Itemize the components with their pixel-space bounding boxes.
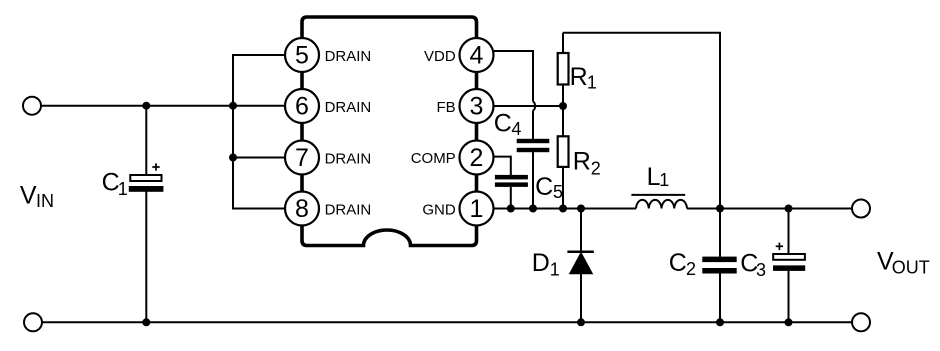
wire: VDD pin4 to C4 top (crossover hop at FB wire) (492, 51, 533, 102)
wire: C5 bottom to switch-node rail (510, 187, 512, 209)
wire: left drain bus vertical with stubs to pins 5,7,8 (233, 55, 285, 209)
pin 8 (DRAIN) (285, 192, 371, 226)
capacitor C1 polarity plus sign (152, 163, 159, 170)
junction: rail / C5 (507, 205, 515, 213)
wire: bottom return rail (42, 321, 852, 323)
value label C2 (669, 249, 696, 279)
inductor L1 coil (636, 200, 687, 209)
svg-text:C: C (494, 109, 512, 137)
capacitor C4 bottom plate (517, 148, 550, 152)
pin 3 (FB) (437, 89, 494, 123)
junction: input rail / drain bus (229, 102, 237, 110)
value label D1 (532, 249, 560, 279)
svg-text:3: 3 (470, 93, 484, 121)
junction: output node / C2 / feedback (716, 205, 724, 213)
capacitor C5 top plate (495, 175, 528, 180)
terminal: VIN positive (23, 97, 41, 115)
svg-text:FB: FB (437, 99, 456, 116)
junction: output node / C3 (785, 205, 793, 213)
junction: FB node R1/R2 (559, 102, 567, 110)
svg-text:7: 7 (295, 144, 309, 172)
diode D1 cathode bar (567, 251, 593, 254)
svg-text:DRAIN: DRAIN (325, 202, 372, 219)
svg-text:6: 6 (295, 93, 309, 121)
svg-text:2: 2 (591, 159, 601, 179)
pin 1 (GND) (422, 192, 493, 226)
wire: C2 bottom lead (719, 273, 721, 322)
junction: input rail / C1 (142, 102, 150, 110)
wire: FB pin3 to divider node (494, 105, 564, 107)
svg-text:1: 1 (659, 170, 669, 190)
junction: rail / C4 (529, 205, 537, 213)
wire: switch-node rail from L1 to VOUT+ terminal (687, 208, 852, 210)
svg-text:4: 4 (511, 119, 521, 139)
wire: C3 bottom lead (788, 271, 790, 323)
wire: stub to pin 7 (233, 157, 285, 159)
svg-text:3: 3 (756, 260, 766, 280)
resistor R2 body (558, 136, 569, 167)
net label VOUT (877, 248, 930, 278)
svg-text:1: 1 (550, 259, 560, 279)
svg-text:1: 1 (118, 179, 128, 199)
capacitor C1 positive plate (hollow) (130, 175, 161, 181)
pin 7 (DRAIN) (285, 141, 371, 175)
svg-text:4: 4 (470, 42, 484, 70)
value label C5 (535, 173, 563, 202)
terminal: VIN negative (24, 313, 42, 331)
capacitor C2 bottom plate (702, 268, 736, 274)
svg-text:2: 2 (686, 259, 696, 279)
value label C3 (740, 249, 766, 280)
value label R1 (570, 63, 597, 93)
value label C4 (494, 109, 522, 139)
capacitor C3 positive plate (hollow) (773, 254, 805, 260)
diode D1 anode triangle (570, 253, 593, 274)
junction: bottom rail / C3 (785, 318, 793, 326)
svg-text:C: C (535, 173, 553, 201)
capacitor C3 negative plate (solid) (773, 265, 805, 271)
wire: C3 top lead (788, 209, 790, 255)
junction: rail / R2 (559, 205, 567, 213)
svg-text:8: 8 (295, 195, 309, 223)
wire: switch-node rail from GND pin1 to L1 (494, 208, 637, 210)
value label R2 (573, 148, 601, 179)
svg-text:1: 1 (587, 72, 597, 92)
svg-text:DRAIN: DRAIN (325, 48, 372, 65)
value label C1 (102, 168, 128, 199)
svg-text:5: 5 (553, 182, 563, 202)
wire: D1 top lead (580, 209, 582, 253)
svg-text:DRAIN: DRAIN (325, 151, 372, 168)
wire: feedback from R1 top to output node (563, 33, 720, 209)
wire: C2 top lead (719, 209, 721, 258)
junction: bottom rail / C2 (716, 318, 724, 326)
svg-text:R: R (573, 148, 591, 176)
resistor R1 body (558, 53, 569, 85)
svg-text:R: R (570, 63, 588, 91)
svg-text:2: 2 (470, 144, 484, 172)
svg-text:OUT: OUT (892, 258, 930, 278)
wire: R2 bottom lead to switch-node rail (562, 167, 564, 209)
svg-text:COMP: COMP (411, 150, 456, 167)
wire: R1 bottom lead to FB node (562, 85, 564, 107)
value label L1 (647, 163, 670, 191)
svg-text:VDD: VDD (424, 48, 456, 65)
inductor L1 core bar (631, 194, 685, 196)
svg-text:1: 1 (470, 195, 484, 223)
svg-text:IN: IN (36, 191, 54, 211)
wire: C1 branch vertical (bottom) (145, 191, 147, 322)
wire: COMP pin2 to C5 top (493, 157, 511, 175)
wire: C1 branch vertical (top) (145, 106, 147, 175)
svg-text:GND: GND (422, 202, 456, 219)
pin 2 (COMP) (411, 141, 494, 175)
svg-text:DRAIN: DRAIN (325, 99, 372, 116)
svg-text:V: V (20, 182, 37, 210)
svg-text:D: D (532, 249, 550, 277)
junction: bottom rail / D1 (577, 318, 585, 326)
capacitor C1 negative plate (solid) (129, 186, 164, 192)
svg-text:C: C (669, 249, 687, 277)
net label VIN (20, 182, 54, 212)
pin 5 (DRAIN) (285, 38, 371, 72)
junction: drain bus / pin 7 stub (229, 154, 237, 162)
capacitor C4 top plate (517, 139, 550, 143)
capacitor C3 polarity plus sign (776, 243, 783, 250)
svg-text:5: 5 (295, 42, 309, 70)
terminal: VOUT negative (852, 313, 870, 331)
wire: R1 top lead (562, 33, 564, 53)
junction: rail / D1 (577, 205, 585, 213)
wire: D1 bottom lead (580, 274, 582, 323)
wire: input top rail from VIN+ terminal to pin 6 (41, 105, 285, 107)
wire: C4 bottom to switch-node rail (532, 152, 534, 209)
terminal: VOUT positive (852, 200, 870, 218)
capacitor C5 bottom plate (495, 182, 528, 187)
pin 4 (VDD) (424, 38, 493, 72)
op-amp U1: 8-pin IC body outline with bottom notch (302, 17, 477, 246)
junction: bottom rail / C1 (142, 318, 150, 326)
pin 6 (DRAIN) (285, 89, 371, 123)
wire: R2 top lead (562, 106, 564, 136)
capacitor C2 top plate (702, 257, 736, 263)
